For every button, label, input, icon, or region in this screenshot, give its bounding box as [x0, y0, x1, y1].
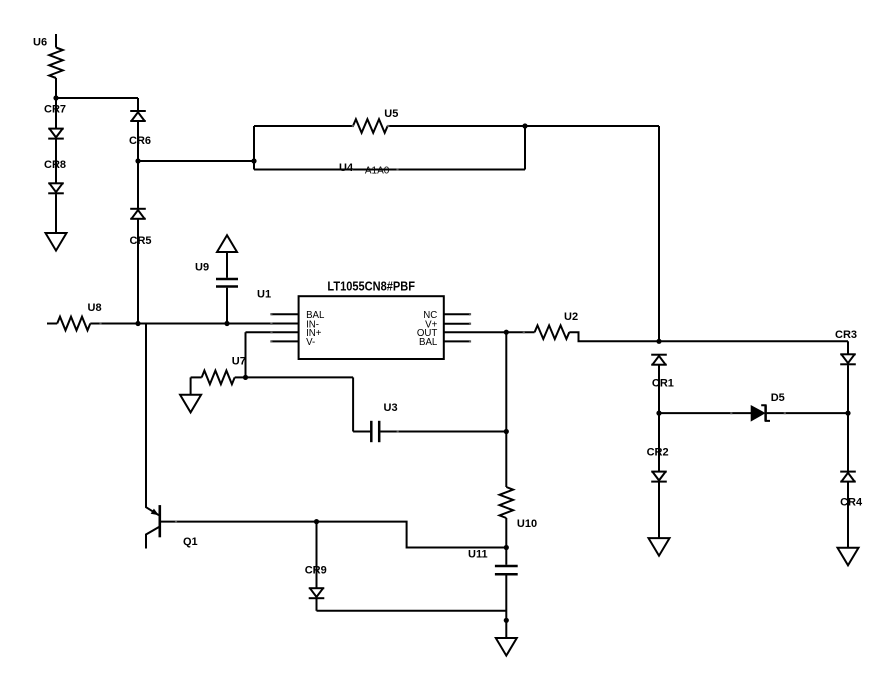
svg-text:U8: U8 [88, 302, 102, 314]
svg-text:CR8: CR8 [44, 159, 66, 171]
svg-text:U2: U2 [564, 311, 578, 323]
svg-text:U10: U10 [517, 518, 537, 530]
svg-text:A1A0: A1A0 [365, 166, 390, 177]
svg-text:CR6: CR6 [129, 135, 151, 147]
svg-text:CR5: CR5 [130, 235, 152, 247]
svg-text:CR2: CR2 [647, 446, 669, 458]
svg-text:U4: U4 [339, 162, 354, 174]
svg-text:U6: U6 [33, 36, 47, 48]
svg-text:CR1: CR1 [652, 378, 674, 390]
svg-text:CR9: CR9 [305, 565, 327, 577]
svg-text:CR3: CR3 [835, 329, 857, 341]
svg-text:D5: D5 [771, 392, 785, 404]
svg-text:U1: U1 [257, 288, 271, 300]
svg-text:BAL: BAL [419, 337, 438, 348]
svg-text:U3: U3 [384, 402, 398, 414]
svg-text:V-: V- [306, 337, 315, 348]
svg-text:CR7: CR7 [44, 103, 66, 115]
svg-text:U9: U9 [195, 261, 209, 273]
svg-text:U11: U11 [468, 548, 488, 560]
svg-text:CR4: CR4 [840, 497, 863, 509]
svg-text:U7: U7 [232, 355, 246, 367]
svg-text:U5: U5 [384, 108, 398, 120]
svg-text:Q1: Q1 [183, 536, 198, 548]
svg-text:LT1055CN8#PBF: LT1055CN8#PBF [327, 279, 415, 293]
